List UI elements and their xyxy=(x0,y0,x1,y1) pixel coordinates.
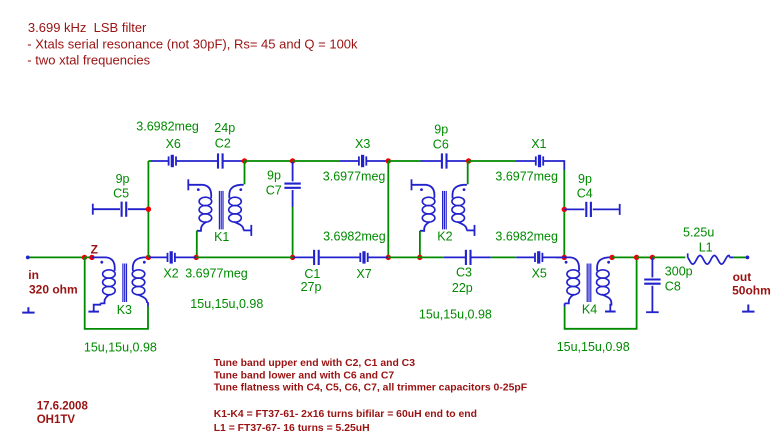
label K2 inductance 15u,15u,0.98 xyxy=(419,308,492,322)
node K3 output xyxy=(146,255,151,260)
wire K1 bottom-left to bottom bus xyxy=(196,231,198,258)
ground at K3 xyxy=(88,311,99,313)
svg-text:C8: C8 xyxy=(665,280,681,294)
open terminal of C5 xyxy=(92,204,94,215)
svg-text:3.6982meg: 3.6982meg xyxy=(495,230,558,244)
wire bottom bus C3 to X5 xyxy=(491,256,517,258)
label X6 xyxy=(166,137,181,151)
label L1 value 5.25u xyxy=(683,226,714,240)
label K4 inductance 15u,15u,0.98 xyxy=(557,340,630,354)
label C6 xyxy=(433,137,449,151)
capacitor C6 xyxy=(421,153,469,168)
wire L1 to output xyxy=(733,256,746,258)
label X2 xyxy=(163,267,178,281)
open terminal of C8 xyxy=(646,311,659,313)
label K2 xyxy=(437,230,452,244)
node X3-riser (top bus) xyxy=(386,158,391,163)
capacitor C4 xyxy=(564,202,619,217)
wire K2 bottom-left to bottom bus xyxy=(419,231,421,258)
svg-text:9p: 9p xyxy=(267,169,281,183)
capacitor C5 xyxy=(93,202,149,217)
note: tune line 1 xyxy=(214,358,416,369)
label K3 inductance 15u,15u,0.98 xyxy=(84,340,157,354)
node riser middle bottom xyxy=(386,255,391,260)
label K3 xyxy=(117,303,132,317)
label C4 xyxy=(577,186,593,200)
label C2 value 24p xyxy=(214,121,235,135)
label C8 value 300p xyxy=(665,264,693,278)
wire riser left (node K3 out up to top bus) xyxy=(147,161,149,257)
svg-text:15u,15u,0.98: 15u,15u,0.98 xyxy=(557,340,630,354)
wire output bus loop node to C8 xyxy=(637,256,653,258)
label C1 xyxy=(304,267,320,281)
svg-text:C4: C4 xyxy=(577,186,593,200)
crystal X7 xyxy=(360,251,388,263)
wire top bus C2 node to C7 node xyxy=(245,160,293,162)
svg-text:Tune band lower and with C6 an: Tune band lower and with C6 and C7 xyxy=(214,370,395,381)
note: tune line 3 xyxy=(214,383,527,394)
svg-text:17.6.2008: 17.6.2008 xyxy=(37,400,89,412)
label X2 freq 3.6977meg xyxy=(185,267,248,281)
open terminal of C4 xyxy=(619,204,621,215)
label L1 xyxy=(699,241,713,255)
label C1 value 27p xyxy=(301,280,322,294)
label X5 freq 3.6982meg xyxy=(495,230,558,244)
label K4 xyxy=(582,302,597,316)
svg-text:24p: 24p xyxy=(214,121,235,135)
note: title line 3 xyxy=(27,52,150,67)
label X1 freq 3.6977meg xyxy=(495,169,558,183)
capacitor C1 xyxy=(293,250,360,265)
label C5 xyxy=(113,186,129,200)
note: K coils xyxy=(214,409,477,420)
svg-text:15u,15u,0.98: 15u,15u,0.98 xyxy=(84,340,157,354)
svg-text:out: out xyxy=(733,270,752,284)
label X7 freq 3.6982meg xyxy=(323,230,386,244)
label K1 xyxy=(214,230,229,244)
label C7 xyxy=(266,184,282,198)
note: title line 1 xyxy=(28,20,147,35)
node X5-K4 (bottom bus) xyxy=(562,255,567,260)
svg-text:C6: C6 xyxy=(433,137,449,151)
wire loop K4 (bottom feedback) xyxy=(565,257,637,328)
label X3 freq 3.6977meg xyxy=(323,169,386,183)
node K2-bottom bus xyxy=(417,255,422,260)
svg-text:in: in xyxy=(28,268,39,282)
node Z junction xyxy=(89,255,94,260)
wire bottom bus K1 node to C7 node xyxy=(196,256,292,258)
wire K2 bottom-right stub xyxy=(467,229,475,231)
svg-text:3.6982meg: 3.6982meg xyxy=(136,120,199,134)
svg-text:300p: 300p xyxy=(665,264,693,278)
terminal out (blue dot) xyxy=(746,256,750,260)
label X6 freq 3.6982meg xyxy=(136,120,199,134)
svg-text:Tune band upper end with C2, C: Tune band upper end with C2, C1 and C3 xyxy=(214,358,416,369)
crystal X6 xyxy=(151,155,176,167)
node C6-K2 (top bus) xyxy=(466,158,471,163)
label C7 value 9p xyxy=(267,169,281,183)
svg-text:5.25u: 5.25u xyxy=(683,226,714,240)
svg-text:15u,15u,0.98: 15u,15u,0.98 xyxy=(190,297,263,311)
note: tune line 2 xyxy=(214,370,395,381)
node at input junction xyxy=(82,255,87,260)
node C5-riser xyxy=(146,207,151,212)
label X3 xyxy=(355,137,370,151)
wire input to node Z xyxy=(30,256,85,258)
transformer K4 xyxy=(556,257,611,303)
transformer K3 xyxy=(92,257,147,303)
label C6 value 9p xyxy=(434,123,448,137)
ground at input xyxy=(22,307,34,312)
label C2 xyxy=(215,137,231,151)
svg-text:K1-K4 = FT37-61- 2x16 turns bi: K1-K4 = FT37-61- 2x16 turns bifilar = 60… xyxy=(214,409,477,420)
terminal in (blue dot) xyxy=(26,256,30,260)
svg-text:- two xtal frequencies: - two xtal frequencies xyxy=(27,52,150,67)
label C3 value 22p xyxy=(452,281,473,295)
wire K3 left bottom to ground xyxy=(94,303,101,311)
wire top bus C7 node to X3 xyxy=(293,160,340,162)
ground at output xyxy=(742,305,754,312)
svg-text:L1: L1 xyxy=(699,241,713,255)
node C8 top xyxy=(650,255,655,260)
node C4-riser xyxy=(562,207,567,212)
wire K3 right bottom lead xyxy=(146,303,149,307)
svg-text:50ohm: 50ohm xyxy=(732,284,771,298)
note: L1 coil xyxy=(214,423,370,434)
open terminal K1 top-left xyxy=(187,179,189,190)
label Z xyxy=(91,243,98,257)
node K4 output xyxy=(609,255,614,260)
node K1-bottom bus xyxy=(194,255,199,260)
node C7 top xyxy=(290,158,295,163)
svg-text:C7: C7 xyxy=(266,184,282,198)
capacitor C8 xyxy=(644,257,660,312)
label 320 ohm xyxy=(29,283,78,297)
svg-text:22p: 22p xyxy=(452,281,473,295)
wire loop K3 (bottom feedback) xyxy=(85,257,148,329)
svg-text:9p: 9p xyxy=(116,172,130,186)
inductor L1 xyxy=(688,253,733,264)
capacitor C2 xyxy=(177,153,245,168)
wire bottom bus K2 node to C3 xyxy=(420,256,444,258)
open terminal K2 top-left xyxy=(411,179,413,190)
note: title line 2 xyxy=(27,37,358,52)
wire riser right (X1 down to bottom bus) xyxy=(563,170,565,257)
wire output bus K4 to loop node xyxy=(612,256,637,258)
crystal X2 xyxy=(150,251,196,263)
svg-text:- Xtals serial resonance (not: - Xtals serial resonance (not 30pF), Rs=… xyxy=(27,37,358,52)
label C5 value 9p xyxy=(116,172,130,186)
note: date xyxy=(37,400,89,412)
capacitor C3 xyxy=(444,250,491,265)
wire C8 node to L1 xyxy=(652,256,685,258)
svg-text:X1: X1 xyxy=(531,137,546,151)
svg-text:X7: X7 xyxy=(356,267,371,281)
wire K1 bottom-right stub xyxy=(243,229,251,231)
crystal X5 xyxy=(516,251,564,263)
svg-text:K3: K3 xyxy=(117,303,132,317)
svg-text:3.6977meg: 3.6977meg xyxy=(323,169,386,183)
wire riser middle xyxy=(387,161,389,257)
open terminal K2 bottom-right xyxy=(474,225,476,236)
svg-text:27p: 27p xyxy=(301,280,322,294)
wire top bus corner xyxy=(148,160,151,162)
svg-text:3.6982meg: 3.6982meg xyxy=(323,230,386,244)
wire K4 left bottom lead xyxy=(564,303,566,306)
wire bottom bus riser node to K2 node xyxy=(388,256,420,258)
svg-text:X6: X6 xyxy=(166,137,181,151)
node C7 bottom xyxy=(290,255,295,260)
wire K2 top-right to top bus node xyxy=(467,161,469,184)
svg-text:X2: X2 xyxy=(163,267,178,281)
svg-text:15u,15u,0.98: 15u,15u,0.98 xyxy=(419,308,492,322)
wire K4 right bottom to ground xyxy=(610,303,611,311)
svg-text:Z: Z xyxy=(91,243,98,257)
label X1 xyxy=(531,137,546,151)
svg-text:320 ohm: 320 ohm xyxy=(29,283,78,297)
wire K1 top-right to top bus node xyxy=(244,161,246,184)
svg-text:3.6977meg: 3.6977meg xyxy=(495,169,558,183)
wire top bus riser node to C6 xyxy=(388,160,420,162)
node C2-K1 (top bus) xyxy=(242,158,247,163)
label K1 inductance 15u,15u,0.98 xyxy=(190,297,263,311)
svg-text:X5: X5 xyxy=(532,267,547,281)
label C3 xyxy=(456,266,472,280)
label in xyxy=(28,268,39,282)
svg-text:K4: K4 xyxy=(582,302,597,316)
wire top bus C6 node to X1 xyxy=(469,160,516,162)
label 50ohm xyxy=(732,284,771,298)
svg-text:C2: C2 xyxy=(215,137,231,151)
transformer K1 xyxy=(188,185,243,231)
svg-text:K1: K1 xyxy=(214,230,229,244)
label C8 xyxy=(665,280,681,294)
label C4 value 9p xyxy=(578,172,592,186)
svg-text:X3: X3 xyxy=(355,137,370,151)
svg-text:C3: C3 xyxy=(456,266,472,280)
svg-text:OH1TV: OH1TV xyxy=(37,414,76,426)
svg-text:K2: K2 xyxy=(437,230,452,244)
crystal X3 xyxy=(340,155,388,167)
ground at K4 xyxy=(605,311,616,313)
open terminal K1 bottom-right xyxy=(250,225,252,236)
svg-text:C5: C5 xyxy=(113,186,129,200)
svg-text:9p: 9p xyxy=(434,123,448,137)
label X5 xyxy=(532,267,547,281)
wire C7 bottom to bus xyxy=(292,207,294,257)
svg-text:C1: C1 xyxy=(304,267,320,281)
svg-text:3.6977meg: 3.6977meg xyxy=(185,267,248,281)
svg-text:9p: 9p xyxy=(578,172,592,186)
svg-text:3.699 kHz LSB filter: 3.699 kHz LSB filter xyxy=(28,20,147,35)
svg-text:L1 = FT37-67- 16 turns = 5.25u: L1 = FT37-67- 16 turns = 5.25uH xyxy=(214,423,370,434)
crystal X1 xyxy=(516,155,564,170)
transformer K2 xyxy=(412,185,467,231)
node loop-output bus xyxy=(634,255,639,260)
label out xyxy=(733,270,752,284)
note: author OH1TV xyxy=(37,414,76,426)
label X7 xyxy=(356,267,371,281)
wire node to K3 xyxy=(85,256,92,258)
capacitor C7 xyxy=(284,162,300,207)
svg-text:Tune flatness with C4, C5, C6,: Tune flatness with C4, C5, C6, C7, all t… xyxy=(214,383,527,394)
